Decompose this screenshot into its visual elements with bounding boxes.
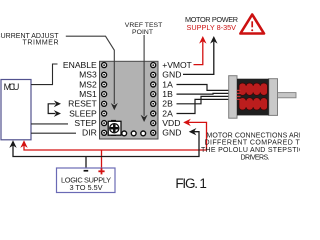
wire +VMOT to motor power supply (194, 42, 203, 65)
MCU gnd arrowhead (9, 140, 16, 148)
wire 2A to motor (177, 99, 238, 113)
motor right cap (269, 79, 278, 116)
current adjust arrowhead (111, 103, 118, 110)
svg-text:2B: 2B (162, 99, 173, 109)
wire VDD from logic supply (24, 122, 207, 150)
motor shaft (277, 93, 296, 98)
MCU vcc arrowhead (20, 140, 27, 148)
svg-text:1A: 1A (162, 79, 173, 89)
motor wire contacts (237, 90, 241, 99)
svg-text:TRIMMER: TRIMMER (23, 39, 59, 46)
GND arrowhead (210, 36, 217, 44)
motor left flange (229, 76, 237, 119)
svg-text:2A: 2A (162, 108, 173, 118)
logic - branch wire (85, 157, 87, 169)
sleep arrowhead (54, 110, 61, 117)
svg-text:SLEEP: SLEEP (69, 108, 97, 118)
reset-sleep tie wire (48, 104, 55, 114)
left pin header (102, 63, 107, 136)
logic supply minus terminal (84, 170, 89, 172)
current adjust trimmer leader wire (66, 36, 115, 104)
wire 1A to motor (177, 85, 238, 91)
svg-text:MS2: MS2 (79, 79, 97, 89)
driver board A4988 (100, 61, 159, 139)
svg-text:STEP: STEP (74, 118, 97, 128)
left pin holes (103, 64, 105, 134)
wire GND to motor power supply (183, 42, 214, 75)
wire DIR to MCU (31, 132, 76, 134)
vref test point leader wire (143, 35, 145, 116)
wire ENABLE to MCU (31, 64, 58, 85)
svg-text:+VMOT: +VMOT (162, 60, 192, 70)
svg-text:MCU: MCU (4, 82, 20, 92)
bottom pin row (122, 131, 146, 136)
motor coil bottom (239, 98, 267, 110)
svg-text:1B: 1B (162, 89, 173, 99)
svg-text:MS3: MS3 (79, 70, 97, 80)
motor coil top (239, 83, 267, 95)
svg-text:GND: GND (162, 70, 181, 80)
VDD arrowhead (183, 119, 191, 126)
+VMOT arrowhead (199, 36, 206, 44)
svg-text:FIG. 1: FIG. 1 (175, 176, 207, 191)
MCU U1 (1, 80, 31, 140)
reset arrowhead (54, 100, 61, 107)
trimmer potentiometer (108, 120, 121, 136)
stepper motor M1 (229, 76, 296, 119)
svg-text:ENABLE: ENABLE (63, 60, 97, 70)
svg-text:MS1: MS1 (79, 89, 97, 99)
right pin header (151, 63, 156, 136)
logic + branch wire (101, 150, 103, 168)
logic supply PS1 (57, 168, 116, 193)
warning triangle (240, 15, 264, 34)
right pin labels (162, 60, 192, 138)
svg-text:GND: GND (162, 128, 181, 138)
wire GND from logic supply (13, 132, 199, 157)
svg-text:VDD: VDD (162, 118, 180, 128)
svg-text:SUPPLY 8-35V: SUPPLY 8-35V (187, 23, 237, 32)
svg-text:DIR: DIR (82, 128, 97, 138)
svg-text:DIFFERENT COMPARED TO: DIFFERENT COMPARED TO (205, 140, 301, 147)
wire 1B to motor (177, 92, 238, 95)
svg-text:POINT: POINT (132, 29, 153, 36)
note text motor connections (201, 132, 309, 161)
svg-text:MOTOR CONNECTIONS ARE: MOTOR CONNECTIONS ARE (207, 132, 301, 139)
svg-text:DRIVERS.: DRIVERS. (241, 154, 270, 161)
GND left arrowhead (189, 128, 197, 135)
logic supply plus terminal (98, 168, 104, 174)
svg-text:RESET: RESET (68, 99, 97, 109)
motor body (237, 79, 269, 116)
vref arrowhead (141, 115, 148, 122)
svg-text:3 TO 5.5V: 3 TO 5.5V (70, 183, 103, 192)
left pin labels (63, 60, 98, 138)
svg-text:THE POLOLU AND STEPSTICK: THE POLOLU AND STEPSTICK (201, 147, 300, 154)
wire STEP to MCU (31, 123, 68, 125)
right pin holes (152, 64, 154, 134)
wire 2B to motor (177, 96, 238, 103)
